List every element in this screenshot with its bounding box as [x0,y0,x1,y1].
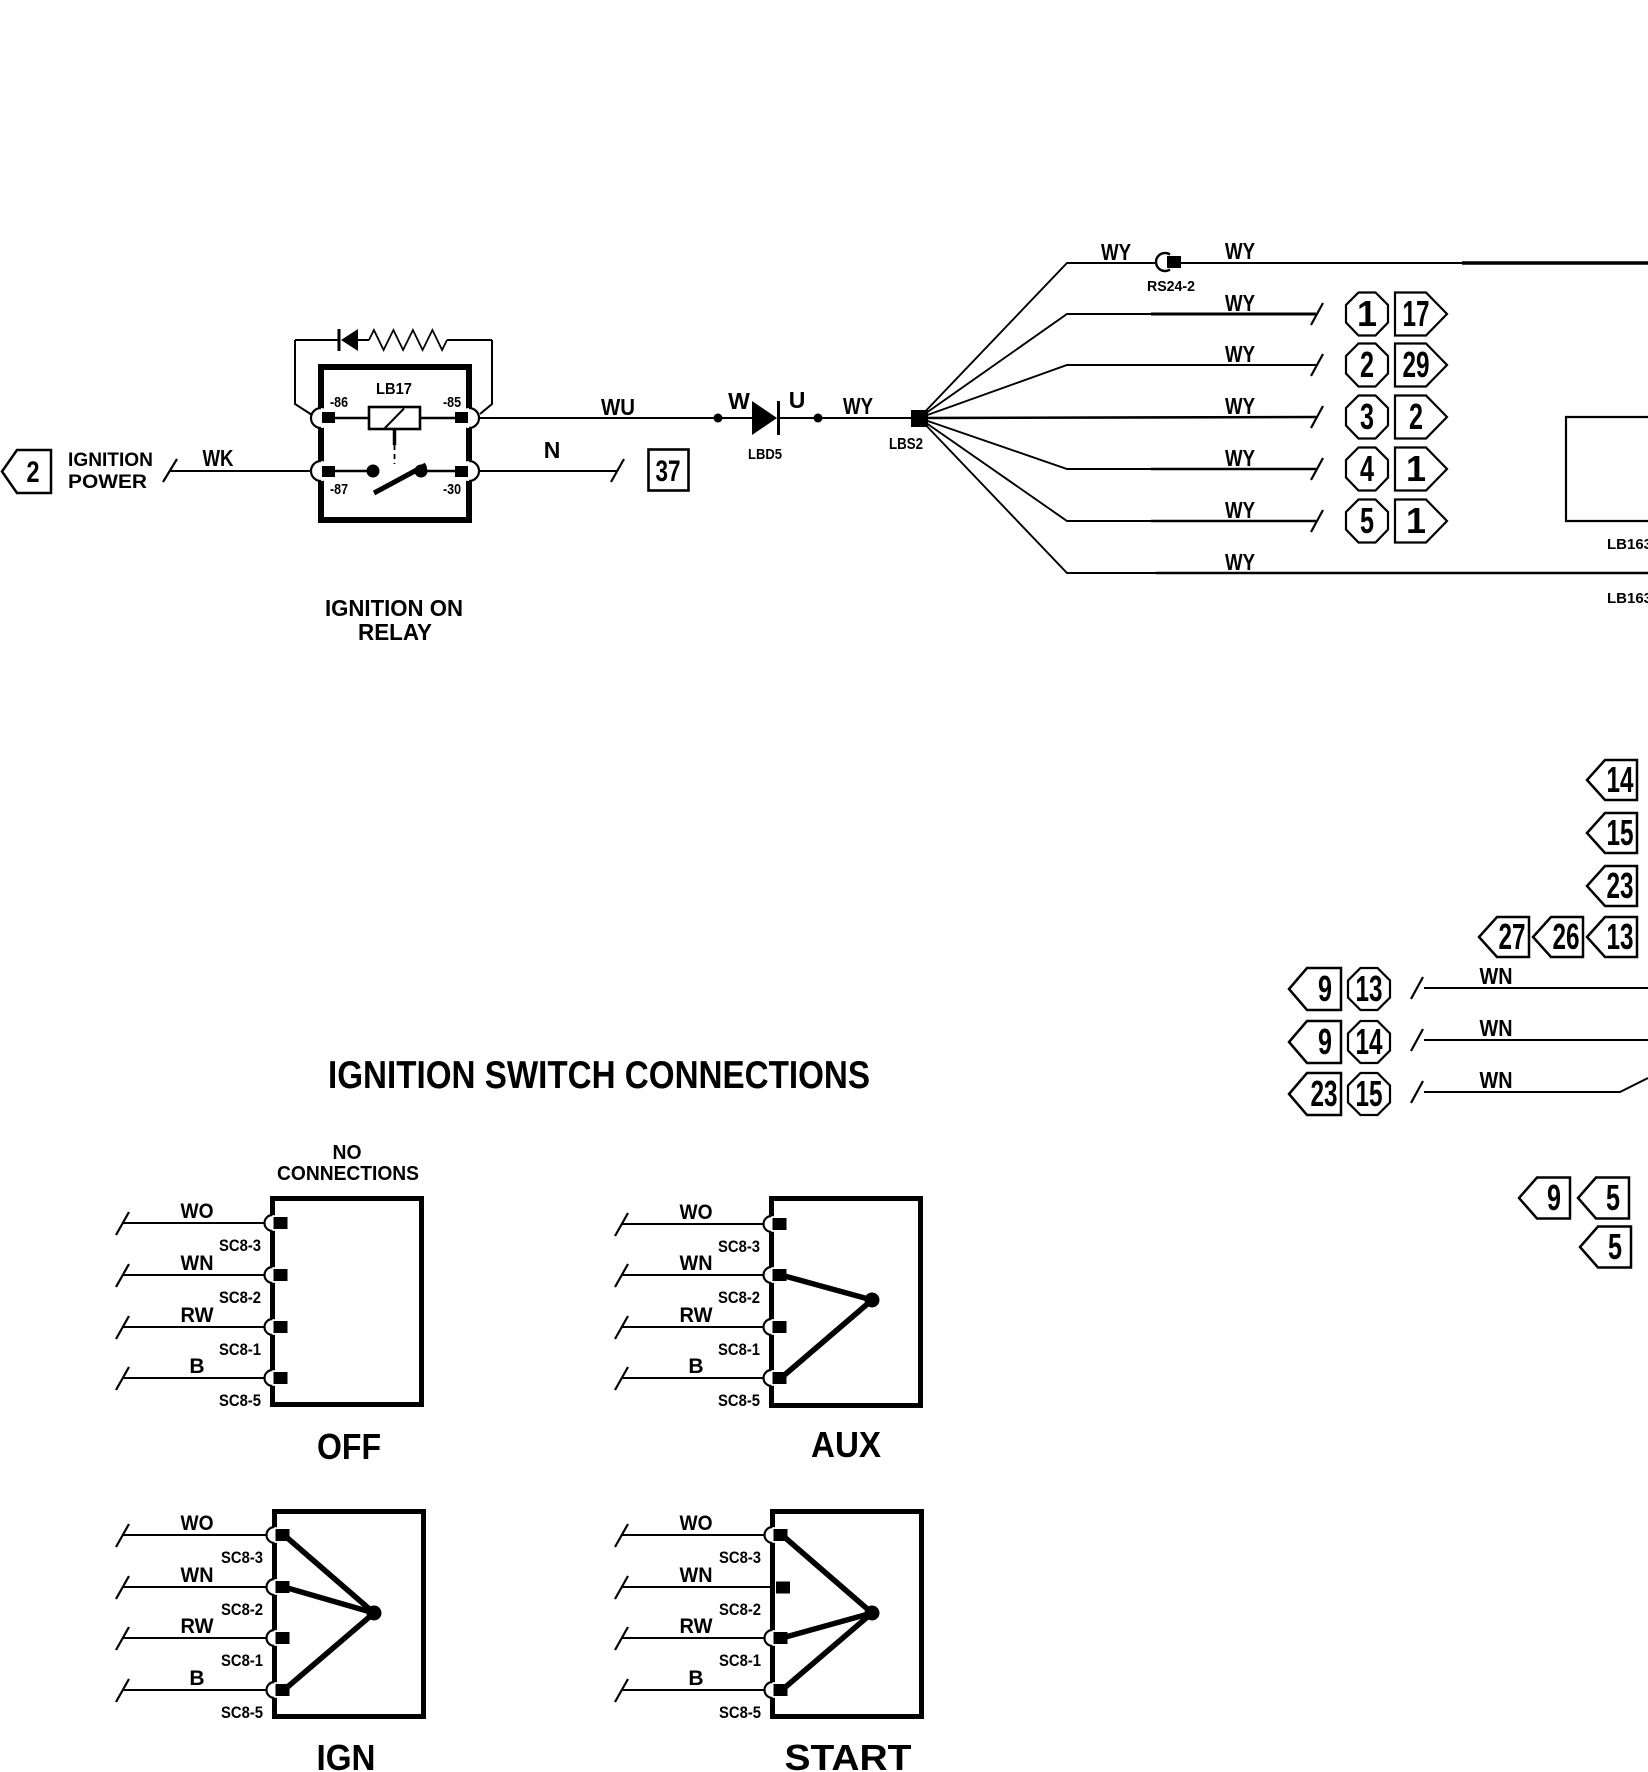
svg-text:15: 15 [1607,812,1634,853]
IGN wire WO [116,1512,272,1567]
pin arrow 23 (left-pointing) [1587,865,1637,906]
svg-text:SC8-5: SC8-5 [221,1703,263,1722]
slash branch 3 [1311,354,1323,376]
svg-text:WO: WO [680,1512,713,1535]
svg-text:SC8-2: SC8-2 [221,1600,263,1619]
svg-text:14: 14 [1356,1021,1383,1062]
label NO CONNECTIONS [277,1142,419,1185]
svg-text:B: B [189,1667,204,1690]
wire WN-3 (kinks up at right edge) [1424,1067,1648,1093]
relay switch arm [374,465,426,493]
svg-text:B: B [189,1355,204,1378]
octagon 5 [1346,500,1388,543]
svg-text:23: 23 [1607,865,1634,906]
START pin SC8-3 [765,1527,788,1543]
diode LBD5 [748,401,782,463]
svg-text:SC8-5: SC8-5 [719,1703,761,1722]
pin arrow 9 (row WN-2) [1289,1021,1341,1063]
svg-text:SC8-2: SC8-2 [219,1288,261,1307]
START wire RW [615,1615,770,1670]
OFF wire B [116,1355,270,1410]
svg-text:SC8-1: SC8-1 [221,1651,263,1670]
svg-text:SC8-3: SC8-3 [221,1548,263,1567]
svg-text:WY: WY [1225,341,1255,367]
svg-text:SC8-3: SC8-3 [219,1236,261,1255]
octagon 13 (row WN-1) [1348,968,1390,1010]
svg-text:WY: WY [1225,445,1255,471]
svg-text:29: 29 [1403,344,1430,385]
resistor (relay suppression) [369,330,447,350]
AUX pin SC8-1 [764,1319,787,1335]
START pin SC8-5 [765,1682,788,1698]
svg-text:WY: WY [1225,497,1255,523]
svg-text:W: W [728,388,750,414]
octagon 15 (row WN-3) [1348,1073,1390,1115]
svg-text:17: 17 [1403,293,1430,334]
svg-text:5: 5 [1606,1177,1620,1218]
START wire B [615,1667,770,1722]
svg-text:23: 23 [1311,1073,1338,1114]
AUX wire WN [615,1252,769,1307]
svg-text:WO: WO [680,1201,713,1224]
in-line connector RS24-2 [1147,253,1195,295]
START wire WN [615,1564,770,1619]
wire WK [170,445,321,471]
slash branch 6 [1311,510,1323,532]
svg-text:RS24-2: RS24-2 [1147,278,1195,295]
wire: resistor to loop right [447,339,492,341]
OFF wire RW [116,1304,270,1359]
AUX junction dot [865,1293,880,1308]
node LBS2 [889,410,928,453]
svg-text:WN: WN [181,1252,214,1275]
slash (wire N break) [611,459,624,482]
relay coil actuator (dashed) [393,429,397,464]
IGN junction dot [367,1606,382,1621]
svg-text:LB163: LB163 [1607,536,1648,553]
svg-text:WN: WN [1480,1067,1513,1093]
svg-text:U: U [789,387,806,413]
svg-text:WK: WK [203,445,234,471]
pin arrow 5 (lowest) [1580,1226,1631,1268]
slash branch 2 [1311,303,1323,325]
svg-text:SC8-2: SC8-2 [718,1288,760,1307]
svg-text:SC8-1: SC8-1 [718,1340,760,1359]
svg-text:2: 2 [27,456,40,489]
pin arrow 2 [1395,396,1447,439]
svg-text:IGN: IGN [317,1737,376,1772]
svg-text:WY: WY [1225,290,1255,316]
OFF pin SC8-1 [265,1319,288,1335]
IGN connection lines [284,1535,374,1690]
IGN pin SC8-1 [267,1630,290,1646]
switch box START [773,1512,922,1717]
svg-text:B: B [688,1355,703,1378]
START connection lines [782,1535,872,1690]
connector 2 (IGNITION POWER source) [2,450,51,493]
svg-text:SC8-1: SC8-1 [219,1340,261,1359]
svg-text:B: B [688,1667,703,1690]
OFF wire WN [116,1252,270,1307]
octagon 4 [1346,448,1388,491]
AUX wire RW [615,1304,769,1359]
pin arrow 14 (left-pointing) [1587,759,1637,800]
pin arrow 5 (lower pair) [1578,1177,1629,1219]
pin arrow 1 (row 5) [1395,500,1447,543]
OFF pin SC8-3 [265,1215,288,1231]
svg-text:IGNITION ON: IGNITION ON [325,595,463,621]
svg-text:1: 1 [1406,500,1426,541]
svg-text:SC8-3: SC8-3 [718,1237,760,1256]
AUX connection lines [781,1275,872,1378]
svg-text:13: 13 [1607,916,1634,957]
relay switch contacts [335,465,455,478]
svg-text:-87: -87 [330,481,348,498]
svg-text:-30: -30 [443,481,461,498]
svg-text:CONNECTIONS: CONNECTIONS [277,1163,419,1185]
octagon 14 (row WN-2) [1348,1021,1390,1063]
svg-text:-86: -86 [330,394,348,411]
svg-text:26: 26 [1553,916,1580,957]
label IGNITION ON RELAY [325,595,463,645]
octagon 3 [1346,396,1388,439]
svg-text:WY: WY [1225,238,1255,264]
svg-text:WO: WO [181,1512,214,1535]
START wire WO [615,1512,770,1567]
svg-text:SC8-3: SC8-3 [719,1548,761,1567]
wire WY branch 1 (to RS24-2) [919,239,1155,418]
slash branch 4 [1311,406,1323,428]
svg-text:9: 9 [1547,1177,1561,1218]
svg-text:13: 13 [1356,968,1383,1009]
wire N (relay -30 to fuse 37) [479,437,617,471]
slash (wire WK break) [163,459,177,482]
svg-text:IGNITION SWITCH CONNECTIONS: IGNITION SWITCH CONNECTIONS [328,1054,870,1097]
diode (relay suppression) [339,329,369,351]
pin arrow 9 (row WN-1) [1289,968,1341,1010]
svg-text:-85: -85 [443,394,461,411]
START pin SC8-1 [765,1630,788,1646]
AUX pin SC8-3 [764,1216,787,1232]
wire: loop top left [295,339,339,341]
wire: pin -86 to suppression loop [295,340,312,415]
switch box IGN [275,1512,424,1717]
svg-text:IGNITION: IGNITION [68,450,153,471]
relay pin -86 [311,394,348,428]
pin arrow 1 (row 4) [1395,448,1447,491]
wire WU [479,394,752,420]
svg-text:1: 1 [1406,448,1426,489]
OFF wire WO [116,1200,270,1255]
pin arrow 13 (left-pointing) [1587,916,1637,957]
svg-text:WY: WY [1101,239,1131,265]
svg-text:4: 4 [1360,448,1374,489]
wire WY branch 4 [919,393,1316,419]
wire WN-2 [1424,1015,1648,1041]
svg-text:14: 14 [1607,759,1634,800]
svg-text:15: 15 [1356,1073,1383,1114]
pin arrow 26 (left-pointing) [1533,916,1583,957]
wire: loop right to pin -85 [480,340,492,414]
junction dot U [814,414,823,423]
svg-text:START: START [785,1737,912,1772]
label IGNITION POWER [68,450,153,493]
pin arrow 27 (left-pointing) [1479,916,1529,957]
AUX wire WO [615,1201,769,1256]
svg-text:WN: WN [680,1252,713,1275]
octagon 2 [1346,344,1388,387]
svg-text:9: 9 [1318,1021,1332,1062]
relay coil LB17 [335,407,455,429]
switch box OFF [273,1199,422,1405]
wire WY branch 7 (bottom, to right edge) [919,418,1648,575]
wire WY branch 2 [919,290,1316,418]
AUX pin SC8-2 [764,1267,787,1283]
svg-text:RELAY: RELAY [358,619,432,645]
component box LB163 (cut at right edge) [1566,417,1648,553]
svg-text:5: 5 [1608,1226,1622,1267]
pin arrow 29 [1395,344,1447,387]
pin arrow 15 (left-pointing) [1587,812,1637,853]
OFF pin SC8-5 [265,1370,288,1386]
svg-text:LBS2: LBS2 [889,436,923,453]
pin arrow 17 [1395,293,1447,336]
svg-text:WO: WO [181,1200,214,1223]
switch box AUX [772,1199,921,1406]
pin arrow 23 (row WN-3) [1289,1073,1341,1115]
IGN pin SC8-5 [267,1682,290,1698]
wire WY branch 6 [919,418,1316,523]
slash (wire WN-3) [1411,1081,1423,1103]
svg-text:LB163: LB163 [1607,590,1648,607]
svg-text:SC8-5: SC8-5 [718,1391,760,1410]
svg-text:WU: WU [601,394,635,420]
svg-text:37: 37 [656,455,681,488]
START junction dot [865,1606,880,1621]
relay pin -30 [443,461,479,498]
box 37 [649,450,689,491]
AUX wire B [615,1355,769,1410]
svg-text:5: 5 [1360,500,1374,541]
svg-text:NO: NO [333,1142,362,1164]
svg-text:27: 27 [1499,916,1526,957]
svg-text:WN: WN [181,1564,214,1587]
svg-text:RW: RW [680,1615,713,1638]
START pin SC8-2 [776,1582,790,1594]
svg-text:1: 1 [1357,293,1377,334]
svg-text:WY: WY [1225,549,1255,575]
svg-text:WY: WY [843,393,873,419]
slash (wire WN-1) [1411,977,1423,999]
junction dot W [714,414,723,423]
svg-text:LB17: LB17 [376,381,412,398]
svg-text:WY: WY [1225,393,1255,419]
wire U to node [780,417,911,419]
svg-text:RW: RW [181,1304,214,1327]
wire WY branch 5 [919,418,1316,471]
svg-text:SC8-5: SC8-5 [219,1391,261,1410]
svg-text:WN: WN [1480,963,1513,989]
svg-text:WN: WN [680,1564,713,1587]
svg-text:SC8-2: SC8-2 [719,1600,761,1619]
relay pin -85 [443,394,479,428]
AUX pin SC8-5 [764,1370,787,1386]
IGN wire WN [116,1564,272,1619]
svg-text:SC8-1: SC8-1 [719,1651,761,1670]
wire WN-1 [1424,963,1648,989]
svg-text:LBD5: LBD5 [748,446,782,463]
pin arrow 9 (lower pair) [1519,1177,1570,1219]
svg-text:2: 2 [1409,396,1423,437]
svg-text:2: 2 [1360,344,1374,385]
svg-text:3: 3 [1360,396,1374,437]
wire WY branch 1 continuation to right edge [1181,238,1648,264]
relay pin -87 [311,461,348,498]
svg-text:RW: RW [181,1615,214,1638]
wire WY branch 3 [919,341,1316,418]
svg-text:WN: WN [1480,1015,1513,1041]
svg-text:N: N [544,437,561,463]
relay LB17 (IGNITION ON RELAY) box [321,367,469,520]
svg-text:9: 9 [1318,968,1332,1009]
svg-text:RW: RW [680,1304,713,1327]
svg-text:AUX: AUX [811,1424,881,1465]
octagon 1 [1346,293,1388,336]
svg-text:OFF: OFF [317,1426,381,1467]
IGN wire RW [116,1615,272,1670]
slash (wire WN-2) [1411,1029,1423,1051]
OFF pin SC8-2 [265,1267,288,1283]
IGN wire B [116,1667,272,1722]
IGN pin SC8-2 [267,1579,290,1595]
IGN pin SC8-3 [267,1527,290,1543]
svg-text:POWER: POWER [68,472,147,493]
slash branch 5 [1311,458,1323,480]
